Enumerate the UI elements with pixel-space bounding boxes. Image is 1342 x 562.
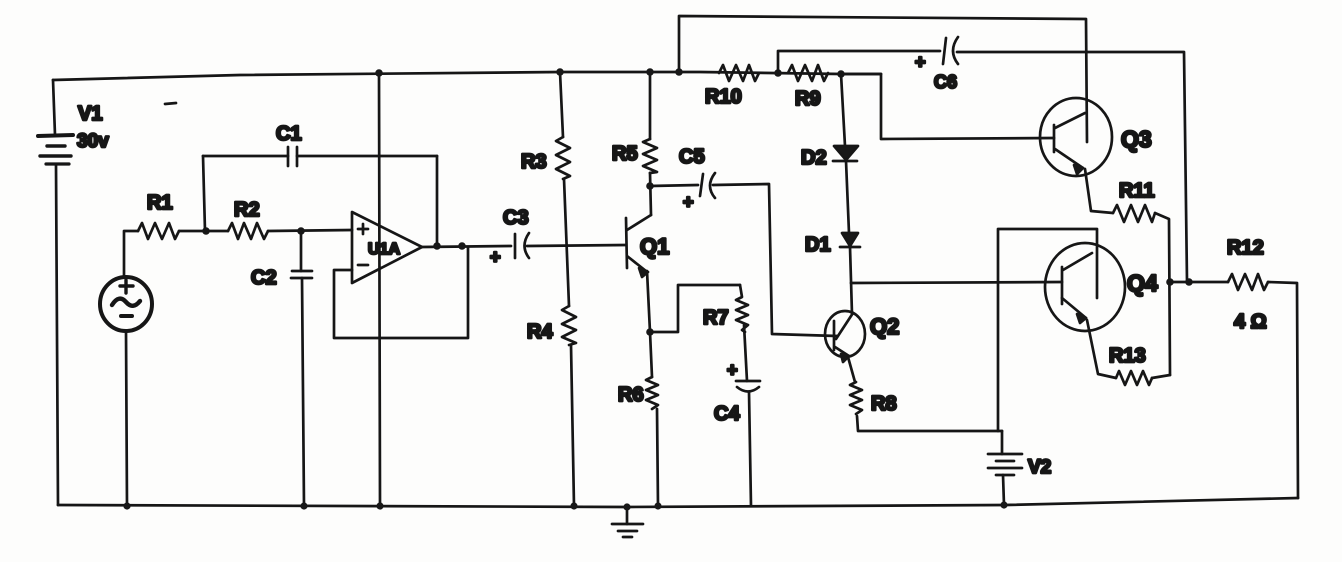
junction output node C6: [1185, 278, 1193, 286]
transistor Q4: [1045, 243, 1125, 331]
junction Q1 collector node: [646, 182, 654, 190]
wire output node to R12: [1170, 281, 1228, 284]
wire Q1 emitter down: [647, 271, 650, 332]
wire R12 to right rail: [1268, 282, 1298, 498]
wire bottom rail: [58, 498, 1298, 507]
svg-text:+: +: [727, 360, 738, 380]
transistor Q2: [825, 311, 865, 362]
wire left rail V1 bottom to ground rail: [56, 165, 58, 505]
wire C4 to bottom rail: [749, 392, 751, 506]
wire R13 to output node: [1152, 375, 1170, 378]
resistor R1: [138, 223, 179, 239]
svg-text:Q4: Q4: [1127, 270, 1158, 296]
transistor Q1: [626, 215, 651, 277]
wire R6 to bottom rail: [657, 409, 658, 506]
resistor R8: [850, 382, 862, 414]
wire V2 top: [1001, 431, 1004, 454]
svg-text:C3: C3: [503, 207, 529, 229]
junction R5 top: [646, 68, 654, 76]
capacitor C5: [700, 173, 715, 198]
junction supply riser top: [375, 69, 383, 77]
svg-text:R9: R9: [795, 88, 821, 110]
wire Q4 emitter to R13: [1087, 320, 1116, 378]
wire R4 to bottom rail: [571, 345, 574, 506]
wire bias chain D2 D1: [841, 74, 852, 314]
wire top rail to R5: [649, 72, 652, 139]
resistor R6: [646, 377, 658, 409]
svg-text:4 Ω: 4 Ω: [1234, 311, 1267, 333]
junction ground stem: [623, 503, 630, 510]
svg-text:R13: R13: [1109, 345, 1146, 367]
capacitor C6: [943, 37, 958, 64]
junction AC source bottom: [123, 502, 130, 509]
svg-text:+: +: [490, 247, 501, 267]
svg-text:R2: R2: [234, 199, 260, 221]
stray dash mark: [165, 103, 176, 104]
wire R11 to output node: [1155, 213, 1170, 375]
wire C6 branch from R10/R9 node: [778, 51, 1187, 281]
wire left rail V1 top: [53, 80, 55, 135]
svg-text:C5: C5: [679, 146, 705, 168]
wire R2 to op-amp + input: [268, 230, 352, 231]
capacitor C2: [291, 271, 312, 278]
wire R8 to V2 plus: [857, 416, 1002, 431]
junction R9 right node: [837, 70, 845, 78]
wire feedback loop: [334, 247, 468, 338]
wire op-amp output: [422, 246, 511, 247]
svg-text:C6: C6: [934, 72, 957, 92]
wire Q4 collector loop to V2: [998, 229, 1097, 431]
svg-text:D1: D1: [805, 234, 831, 256]
resistor R11: [1113, 205, 1155, 222]
svg-text:30v: 30v: [77, 131, 109, 152]
junction C2 bottom: [300, 502, 307, 509]
wire R3 to R4: [564, 179, 569, 306]
op-amp U1A: [352, 212, 422, 283]
wire node A to R2: [206, 230, 228, 233]
transistor Q3: [1040, 98, 1112, 176]
svg-text:R3: R3: [521, 151, 547, 173]
capacitor C1: [288, 147, 297, 166]
resistor R10: [719, 65, 759, 81]
resistor R5: [643, 139, 657, 173]
svg-text:Q2: Q2: [870, 314, 899, 339]
junction node B (C2 tap): [297, 227, 305, 235]
svg-text:R4: R4: [527, 321, 553, 343]
capacitor C3: [515, 233, 529, 258]
wire R1 to node A: [179, 230, 206, 233]
svg-text:R7: R7: [703, 307, 729, 329]
svg-text:V1: V1: [78, 103, 102, 125]
junction output C1 branch: [433, 242, 441, 250]
junction Q1 emitter node: [646, 328, 654, 336]
svg-text:C4: C4: [714, 403, 740, 425]
junction R3 top: [556, 68, 564, 76]
junction R4 bottom: [570, 502, 577, 509]
wire AC source bottom to bottom rail: [126, 331, 127, 506]
wire Q2 collector to Q4 base: [851, 282, 1062, 283]
battery V2: [988, 454, 1022, 475]
diode D1: [840, 233, 860, 247]
wire Q1 collector to C5: [650, 185, 698, 186]
svg-text:C1: C1: [276, 123, 302, 145]
svg-text:D2: D2: [801, 147, 827, 169]
junction supply riser bottom: [376, 502, 383, 509]
wire AC source top to R1: [124, 231, 138, 277]
resistor R12: [1228, 274, 1268, 290]
wire node B down to C2: [300, 231, 303, 271]
junction output feedback branch: [458, 242, 466, 250]
junction top rail riser: [675, 68, 683, 76]
svg-text:Q1: Q1: [640, 234, 669, 259]
ground: [612, 507, 643, 537]
wire Q2 emitter to R8: [848, 357, 855, 382]
wire C1 right branch down to output node: [436, 156, 439, 246]
wire C1 horizontal: [203, 155, 437, 158]
wire R5 to Q1 collector: [650, 173, 651, 215]
battery V1: [38, 135, 73, 164]
resistor R7: [736, 285, 748, 332]
AC source VIN: [100, 277, 152, 331]
wire R7 to C4: [744, 325, 747, 381]
svg-text:R1: R1: [147, 192, 173, 214]
wire emitter node to R6: [650, 332, 652, 377]
junction output node left: [1166, 278, 1174, 286]
wire very top rail to Q3 collector: [679, 16, 1087, 142]
diode D2: [833, 146, 858, 161]
svg-text:R5: R5: [612, 143, 638, 165]
junction V2 bottom: [1000, 501, 1007, 508]
wire top rail +30V: [53, 72, 881, 80]
svg-text:+: +: [683, 192, 694, 212]
svg-text:R6: R6: [618, 384, 644, 406]
svg-text:R12: R12: [1227, 237, 1264, 259]
svg-text:V2: V2: [1028, 457, 1051, 478]
junction R6 bottom: [654, 502, 661, 509]
resistor R9: [788, 65, 828, 81]
svg-text:C2: C2: [251, 267, 277, 289]
svg-text:+: +: [915, 52, 926, 72]
wire C5 to Q2 base: [713, 184, 837, 336]
wire Q3 emitter to R11: [1085, 169, 1113, 213]
svg-text:Q3: Q3: [1121, 126, 1152, 152]
resistor R3: [556, 137, 570, 179]
wire V2 bottom to rail: [1003, 475, 1004, 505]
junction node A (R1/R2/C1): [202, 227, 210, 235]
wire emitter node to R7 branch: [650, 285, 740, 332]
wire C1 left branch down to node A: [203, 156, 205, 231]
wire top rail to R3: [560, 72, 563, 137]
wire C2 to bottom rail: [302, 278, 304, 506]
svg-text:R11: R11: [1119, 180, 1155, 202]
svg-text:U1A: U1A: [368, 241, 400, 258]
wire C3 to Q1 base: [527, 245, 626, 246]
svg-text:R10: R10: [705, 86, 742, 108]
resistor R13: [1116, 371, 1152, 385]
resistor R4: [562, 306, 576, 345]
junction R10/R9 node: [774, 69, 782, 77]
wire R9 node to Q3 base: [841, 74, 1054, 139]
wire op-amp supply vertical: [379, 73, 380, 506]
svg-text:R8: R8: [871, 393, 897, 415]
resistor R2: [228, 223, 268, 239]
capacitor C4: [736, 381, 760, 392]
